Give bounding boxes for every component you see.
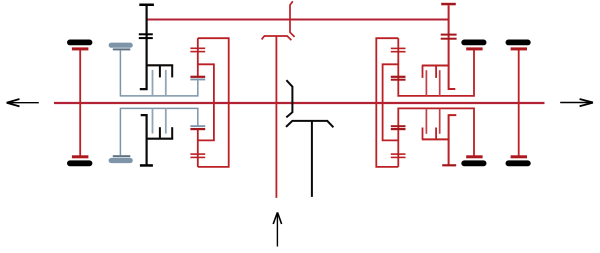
gray clutch plates (teeth) top xyxy=(153,70,166,96)
left coupling red flange top xyxy=(190,76,205,78)
power take-off shaft (black vertical) xyxy=(311,121,313,197)
left planetary outer frame xyxy=(198,38,229,167)
gray motor top hub bar xyxy=(113,48,131,50)
black brake bottom mount foot xyxy=(140,164,153,167)
gray motor bottom pill xyxy=(109,158,133,163)
black brake shaft lower with tick xyxy=(141,115,147,165)
left sun shaft top xyxy=(197,38,199,78)
right drum top mount cap (red) xyxy=(441,3,456,6)
input arrow (bottom) xyxy=(273,212,281,246)
black brake top mount cap xyxy=(139,4,154,7)
left clutch plates bottom (red) xyxy=(190,153,205,158)
input shaft (red vertical) xyxy=(275,36,277,198)
right drum shaft upper with foot xyxy=(449,5,456,89)
gray motor bottom hub bar xyxy=(113,155,131,157)
left wheel bottom hub flange xyxy=(72,155,89,158)
right drum capacitor plates xyxy=(441,34,457,40)
left clutch plates top (red) xyxy=(190,48,205,53)
right clutch inner plates bottom (red) xyxy=(426,108,439,133)
right coupling flanges top xyxy=(391,76,406,81)
right drum shaft lower with tick xyxy=(449,115,457,165)
right coupling flanges bottom xyxy=(391,125,406,130)
black brake shaft upper with foot xyxy=(140,6,147,89)
gray carrier link bottom xyxy=(120,108,197,155)
input bevel crown gear (red, top) xyxy=(290,1,295,37)
right clutch drum bottom (bar and teeth) xyxy=(422,128,450,140)
top red connecting shaft xyxy=(147,18,449,20)
right clutch plates bottom (red) xyxy=(391,153,406,158)
left wheel top hub flange xyxy=(72,47,89,50)
left planetary inner frame xyxy=(198,64,214,140)
gray clutch plates (teeth) bottom xyxy=(153,108,166,133)
input bevel pinion (red) xyxy=(262,36,292,40)
right wheel 2 top hub flange xyxy=(511,47,527,50)
right output arrow xyxy=(560,99,593,106)
right wheel 1 bottom tire xyxy=(461,160,486,166)
right wheel 2 shaft xyxy=(518,50,520,156)
gray coupling flange bottom xyxy=(190,125,205,127)
right clutch plates top (red) xyxy=(391,48,406,53)
right planetary inner frame xyxy=(383,64,399,140)
right clutch inner plates top (red) xyxy=(426,70,439,96)
main axle shaft (red horizontal axis) xyxy=(54,102,545,104)
left wheel shaft xyxy=(79,50,81,156)
left sun shaft bottom xyxy=(197,128,199,167)
black clutch drum top (bar and teeth) xyxy=(146,65,174,77)
gray carrier link top (stem, corner, rail, riser) xyxy=(120,50,197,96)
left coupling red flange bottom xyxy=(190,128,205,130)
center bevel crown gear (black) xyxy=(286,80,292,117)
right wheel 1 bottom hub flange xyxy=(466,155,482,158)
right planetary outer frame xyxy=(376,38,398,167)
center bevel pinion (black) xyxy=(286,121,333,127)
left output arrow xyxy=(7,99,39,106)
black brake capacitor plates xyxy=(139,33,153,39)
left wheel bottom tire xyxy=(67,160,92,166)
right wheel 2 top tire xyxy=(506,40,531,46)
right sun shaft and carrier link top xyxy=(398,38,474,96)
gray motor top pill xyxy=(109,43,133,48)
right drum bottom mount foot (red) xyxy=(442,164,456,166)
right wheel 2 bottom hub flange xyxy=(511,155,527,158)
right wheel 1 top hub flange xyxy=(466,47,482,50)
right wheel 2 bottom tire xyxy=(506,160,531,166)
right sun shaft and carrier link bottom xyxy=(398,108,474,166)
right clutch drum top (bar and teeth) xyxy=(422,66,450,78)
black clutch drum bottom (bar and teeth) xyxy=(146,127,174,139)
gray coupling flange top xyxy=(190,79,205,81)
right wheel 1 top tire xyxy=(461,40,486,46)
left wheel top tire xyxy=(67,40,92,46)
